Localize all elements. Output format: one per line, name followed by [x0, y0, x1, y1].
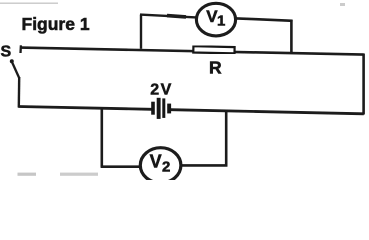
- svg-text:Figure 1: Figure 1: [22, 14, 90, 34]
- svg-text:V: V: [150, 151, 162, 171]
- svg-text:2: 2: [162, 158, 170, 175]
- svg-text:1: 1: [217, 13, 225, 30]
- svg-text:2V: 2V: [150, 82, 172, 99]
- svg-text:R: R: [209, 58, 222, 78]
- svg-text:S: S: [1, 44, 12, 61]
